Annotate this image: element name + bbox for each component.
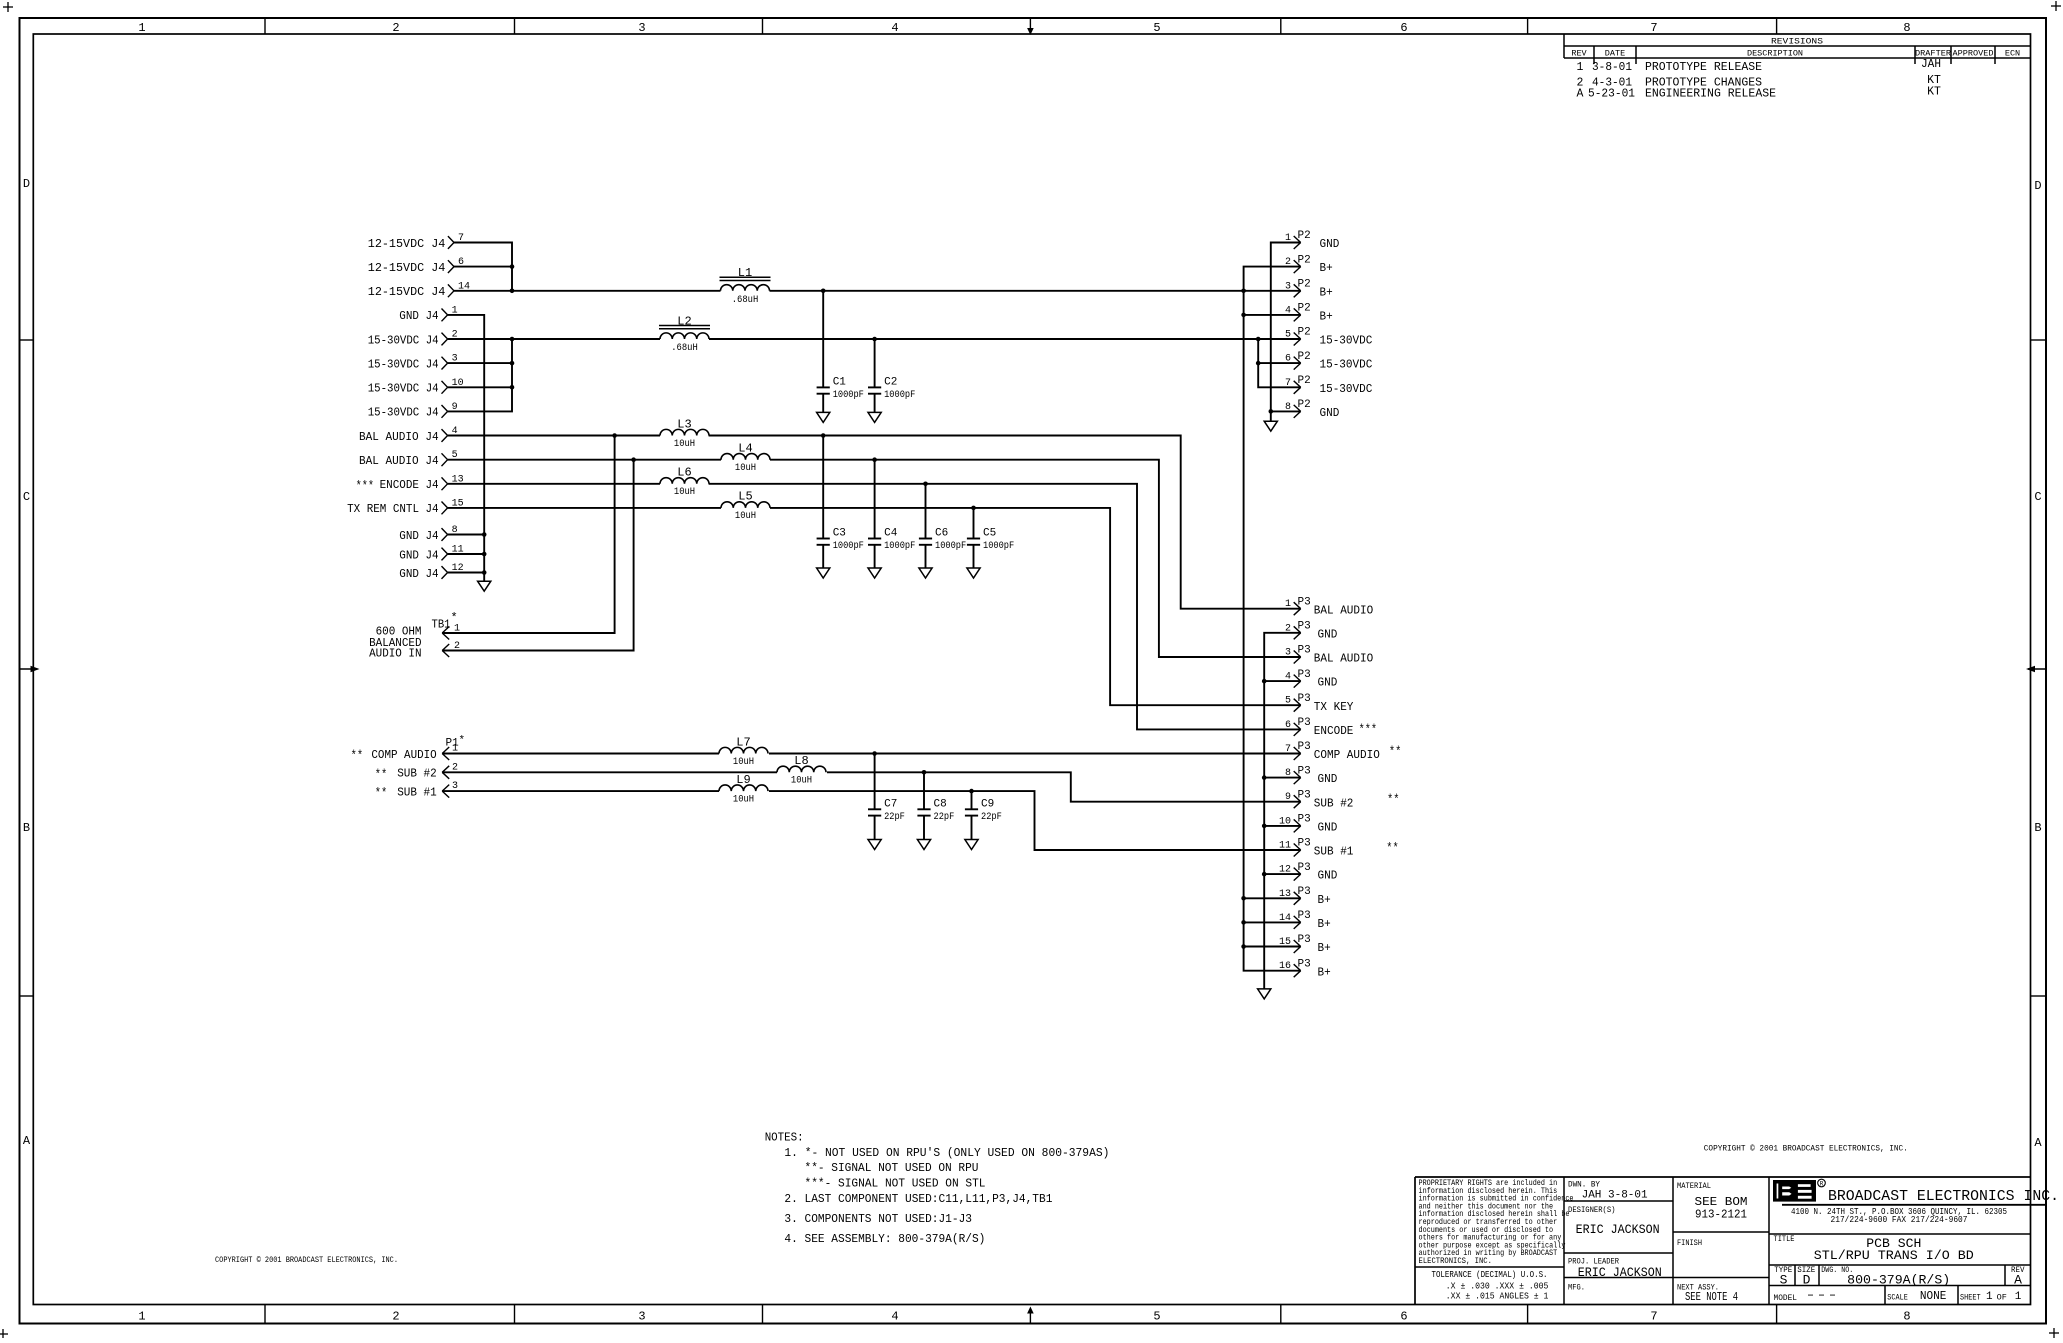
svg-text:8: 8 <box>1903 21 1910 35</box>
junction P3 GND bus pin 10 <box>1262 824 1267 829</box>
junction C5 <box>971 506 976 511</box>
svg-text:3: 3 <box>1285 281 1291 292</box>
connector J4 pin 6 (12-15VDC J4) <box>368 257 464 275</box>
svg-text:15-30VDC: 15-30VDC <box>1320 382 1373 396</box>
svg-text:P2: P2 <box>1298 327 1311 339</box>
svg-text:C4: C4 <box>884 528 898 540</box>
connector J4 pin 2 (15-30VDC J4) <box>368 330 458 348</box>
border zone row ticks <box>20 340 2047 996</box>
ground C9 <box>965 840 978 850</box>
svg-text:REV: REV <box>1571 49 1587 59</box>
connector P2 pin 2 (B+) <box>1285 254 1333 275</box>
svg-text:R: R <box>1820 1181 1824 1188</box>
connector P3 pin 14 (B+) <box>1279 910 1331 931</box>
svg-text:5-23-01: 5-23-01 <box>1588 88 1635 101</box>
connector P2 pin 8 (GND) <box>1285 399 1339 420</box>
svg-text:22pF: 22pF <box>981 811 1002 823</box>
svg-text:NONE: NONE <box>1920 1290 1947 1303</box>
notes <box>765 1130 1110 1246</box>
connector P3 pin 6 (ENCODE) <box>1285 717 1377 738</box>
centerline arrow top <box>1027 18 1034 35</box>
svg-text:P3: P3 <box>1298 596 1311 608</box>
svg-text:MFG.: MFG. <box>1568 1283 1585 1293</box>
junction C9 <box>969 789 974 794</box>
svg-text:D: D <box>1803 1273 1811 1288</box>
svg-text:1000pF: 1000pF <box>884 389 915 401</box>
svg-text:SEE NOTE 4: SEE NOTE 4 <box>1685 1291 1738 1304</box>
svg-text:5: 5 <box>1285 696 1291 707</box>
svg-text:L1: L1 <box>738 266 752 280</box>
svg-text:5: 5 <box>1285 330 1291 341</box>
material cell <box>1677 1181 1748 1222</box>
model scale sheet row <box>1774 1290 2022 1303</box>
svg-text:MATERIAL: MATERIAL <box>1677 1181 1711 1191</box>
wire 15-30VDC bus (P2 pins 5,6,7) <box>1258 339 1301 387</box>
svg-text:6: 6 <box>1400 21 1407 35</box>
connector P1 pin 2 (SUB #2) <box>375 762 458 782</box>
svg-text:6: 6 <box>1400 1310 1407 1324</box>
dwn by cell <box>1568 1180 1648 1202</box>
svg-text:1: 1 <box>1986 1291 1993 1303</box>
svg-text:1: 1 <box>1577 61 1584 74</box>
svg-text:B+: B+ <box>1320 310 1333 324</box>
svg-text:GND: GND <box>1318 627 1338 641</box>
svg-text:15-30VDC J4: 15-30VDC J4 <box>368 333 439 347</box>
svg-text:4. SEE ASSEMBLY: 800-379A(R/S): 4. SEE ASSEMBLY: 800-379A(R/S) <box>784 1232 985 1246</box>
inductor L8 10uH <box>777 754 826 787</box>
finish cell <box>1677 1238 1702 1248</box>
svg-text:C5: C5 <box>983 528 996 540</box>
ground C8 <box>917 840 930 850</box>
svg-text:GND J4: GND J4 <box>399 309 438 323</box>
svg-text:ERIC JACKSON: ERIC JACKSON <box>1576 1223 1660 1237</box>
inductor L9 10uH <box>719 773 768 806</box>
svg-text:C6: C6 <box>935 528 948 540</box>
junction B+ bus P3 pin 13 <box>1241 896 1246 901</box>
border zone letters left <box>23 177 31 1148</box>
svg-text:P3: P3 <box>1298 934 1311 946</box>
svg-text:10uH: 10uH <box>674 486 695 498</box>
revision row 1 <box>1577 58 1941 74</box>
connector P2 pin 4 (B+) <box>1285 303 1333 324</box>
junction TB1-1 / BAL AUDIO <box>612 433 617 438</box>
svg-text:APPROVED: APPROVED <box>1953 49 1994 59</box>
capacitor C3 1000pF <box>817 436 864 569</box>
junction P3 GND bus pin 4 <box>1262 679 1267 684</box>
svg-text:D: D <box>23 177 30 191</box>
connector P2 pin 6 (15-30VDC) <box>1285 351 1372 372</box>
svg-text:A: A <box>2034 1136 2042 1150</box>
junction C7 <box>872 751 877 756</box>
svg-text:10uH: 10uH <box>674 438 695 450</box>
svg-text:SCALE: SCALE <box>1887 1293 1908 1303</box>
svg-text:C: C <box>2034 490 2041 504</box>
wire J4 pin 14 to L1 <box>454 290 721 292</box>
junction B+ bus P3 pin 14 <box>1241 920 1246 925</box>
svg-text:ENCODE J4: ENCODE J4 <box>380 478 439 492</box>
wire L1 out to P2 pin 3 <box>770 290 1301 292</box>
svg-text:GND J4: GND J4 <box>399 548 438 562</box>
svg-text:DESIGNER(S): DESIGNER(S) <box>1568 1205 1616 1215</box>
connector P1 label <box>446 735 466 750</box>
svg-text:GND J4: GND J4 <box>399 529 438 543</box>
capacitor C2 1000pF <box>868 339 915 412</box>
svg-text:L2: L2 <box>677 314 691 328</box>
svg-text:BAL AUDIO: BAL AUDIO <box>1314 603 1373 617</box>
svg-text:A: A <box>23 1134 31 1148</box>
svg-text:SUB #2: SUB #2 <box>397 767 437 781</box>
wire J4 pin 4 to L3 <box>448 435 660 437</box>
terminal TB1 pin 1 <box>442 624 460 640</box>
connector P3 pin 5 (TX KEY) <box>1285 693 1353 714</box>
svg-text:913-2121: 913-2121 <box>1695 1209 1747 1222</box>
svg-text:ELECTRONICS, INC.: ELECTRONICS, INC. <box>1419 1257 1492 1266</box>
connector P3 pin 12 (GND) <box>1279 862 1337 883</box>
svg-text:12-15VDC J4: 12-15VDC J4 <box>368 261 446 275</box>
connector P3 pin 10 (GND) <box>1279 814 1337 835</box>
svg-text:TITLE: TITLE <box>1774 1234 1795 1244</box>
svg-text:---: --- <box>1805 1290 1838 1302</box>
svg-text:DESCRIPTION: DESCRIPTION <box>1747 49 1803 59</box>
svg-text:NOTES:: NOTES: <box>765 1130 804 1144</box>
svg-text:SHEET: SHEET <box>1960 1293 1981 1303</box>
connector J4 pin 9 (15-30VDC J4) <box>368 402 458 420</box>
connector P3 pin 3 (BAL AUDIO) <box>1285 645 1373 666</box>
connector P3 pin 16 (B+) <box>1279 958 1331 979</box>
designer cell <box>1568 1205 1660 1237</box>
svg-text:P3: P3 <box>1298 838 1311 850</box>
ground P2 <box>1264 421 1277 431</box>
junction B+ bus P3 pin 15 <box>1241 944 1246 949</box>
svg-text:1000pF: 1000pF <box>983 540 1014 552</box>
svg-text:A: A <box>2014 1273 2022 1288</box>
svg-text:C2: C2 <box>884 376 897 388</box>
svg-text:C9: C9 <box>981 798 994 810</box>
junction TB1-2 / BAL AUDIO <box>631 457 636 462</box>
capacitor C7 22pF <box>868 754 905 840</box>
svg-text:GND: GND <box>1318 772 1338 786</box>
wire P2 pin 4 stub <box>1244 314 1301 316</box>
wire P1 pin 3 to L9 <box>442 790 719 792</box>
terminal TB1 label <box>369 611 458 661</box>
svg-text:B+: B+ <box>1318 917 1331 931</box>
company name <box>1782 1188 2059 1225</box>
svg-text:**: ** <box>1386 841 1399 856</box>
connector J4 pin 12 (GND) <box>399 563 463 581</box>
svg-text:L5: L5 <box>738 490 752 504</box>
ground C1 <box>817 412 830 422</box>
svg-text:*: * <box>459 735 466 747</box>
connector J4 pin 14 (12-15VDC J4) <box>368 281 470 299</box>
svg-text:P2: P2 <box>1298 303 1311 315</box>
svg-text:SEE BOM: SEE BOM <box>1695 1196 1748 1209</box>
svg-text:7: 7 <box>1650 21 1657 35</box>
connector P3 pin 13 (B+) <box>1279 886 1331 907</box>
svg-text:L9: L9 <box>736 773 750 787</box>
svg-text:.68uH: .68uH <box>732 294 759 306</box>
svg-text:ENGINEERING RELEASE: ENGINEERING RELEASE <box>1645 88 1776 101</box>
capacitor C6 1000pF <box>919 484 966 568</box>
svg-text:P3: P3 <box>1298 669 1311 681</box>
revision row 2 <box>1577 74 1941 90</box>
svg-text:P3: P3 <box>1298 765 1311 777</box>
svg-text:10uH: 10uH <box>735 510 756 522</box>
svg-text:P2: P2 <box>1298 399 1311 411</box>
svg-text:4: 4 <box>891 1310 898 1324</box>
terminal TB1 pin 2 <box>442 641 460 657</box>
wire L7 out to P3 pin 7 (COMP AUDIO) <box>769 753 1301 755</box>
connector P3 pin 15 (B+) <box>1279 934 1331 955</box>
svg-text:3-8-01: 3-8-01 <box>1592 61 1632 74</box>
capacitor C8 22pF <box>917 772 954 839</box>
svg-text:P3: P3 <box>1298 741 1311 753</box>
svg-text:JAH 3-8-01: JAH 3-8-01 <box>1582 1190 1648 1202</box>
svg-text:800-379A(R/S): 800-379A(R/S) <box>1847 1273 1950 1288</box>
svg-text:4: 4 <box>891 21 898 35</box>
svg-text:10uH: 10uH <box>733 756 754 768</box>
junction P3 GND bus pin 8 <box>1262 775 1267 780</box>
connector J4 pin 13 (ENCODE J4) <box>356 474 464 493</box>
junction 12-15VDC bus pin 6 <box>510 264 515 269</box>
svg-text:AUDIO IN: AUDIO IN <box>369 647 421 661</box>
ground C5 <box>967 568 980 578</box>
svg-text:7: 7 <box>1285 744 1291 755</box>
connector J4 pin 8 (GND) <box>399 525 457 543</box>
connector J4 pin 10 (15-30VDC J4) <box>368 378 464 396</box>
svg-text:1000pF: 1000pF <box>833 540 864 552</box>
next assy cell <box>1677 1283 1738 1305</box>
svg-text:DRAFTER: DRAFTER <box>1915 49 1951 59</box>
svg-text:3. COMPONENTS NOT USED:J1-J3: 3. COMPONENTS NOT USED:J1-J3 <box>784 1212 972 1226</box>
wire GND J4 bus <box>448 315 485 581</box>
wire J4 pin 15 to L5 <box>448 507 721 509</box>
svg-text:16: 16 <box>1279 961 1291 972</box>
junction C1 <box>821 289 826 294</box>
svg-text:REVISIONS: REVISIONS <box>1771 37 1823 47</box>
mfg cell <box>1568 1283 1585 1293</box>
wire L4 out to P3 pin 3 (BAL AUDIO) <box>770 460 1301 657</box>
BE logo <box>1773 1179 1825 1201</box>
capacitor C1 1000pF <box>817 291 864 413</box>
wire P2 GND bus (pins 1,8) <box>1271 243 1301 422</box>
connector P3 pin 9 (SUB #2) <box>1285 789 1400 810</box>
copyright bottom left <box>215 1256 398 1265</box>
svg-text:ERIC JACKSON: ERIC JACKSON <box>1578 1266 1662 1280</box>
type size dwg rev row <box>1774 1265 2025 1288</box>
svg-text:10uH: 10uH <box>791 775 812 787</box>
svg-text:**- SIGNAL NOT USED ON RPU: **- SIGNAL NOT USED ON RPU <box>805 1161 979 1175</box>
svg-text:15-30VDC J4: 15-30VDC J4 <box>368 382 439 396</box>
svg-text:TOLERANCE (DECIMAL) U.O.S.: TOLERANCE (DECIMAL) U.O.S. <box>1432 1269 1548 1280</box>
svg-text:3: 3 <box>638 21 645 35</box>
connector P3 pin 7 (COMP AUDIO) <box>1285 741 1401 762</box>
connector P2 pin 3 (B+) <box>1285 279 1333 300</box>
wire P1 pin 1 to L7 <box>442 753 719 755</box>
wire L2 out to P2 pin 5 <box>709 338 1301 340</box>
svg-text:P3: P3 <box>1298 958 1311 970</box>
svg-text:9: 9 <box>1285 792 1291 803</box>
wire L6 out to P3 pin 6 (ENCODE) <box>709 484 1301 730</box>
inductor L7 10uH <box>719 735 768 768</box>
connector P3 pin 8 (GND) <box>1285 765 1337 786</box>
svg-text:B+: B+ <box>1318 941 1331 955</box>
inductor L1 .68uH <box>720 266 771 306</box>
svg-text:1: 1 <box>138 1310 145 1324</box>
junction C8 <box>922 770 927 775</box>
svg-text:GND: GND <box>1318 869 1338 883</box>
svg-text:C: C <box>23 490 30 504</box>
svg-text:D: D <box>2034 179 2041 193</box>
svg-text:P2: P2 <box>1298 375 1311 387</box>
svg-text:OF: OF <box>1997 1293 2007 1303</box>
revisions table <box>1564 34 2031 64</box>
svg-text:.XX ± .015 ANGLES ± 1: .XX ± .015 ANGLES ± 1 <box>1446 1291 1549 1302</box>
svg-text:B+: B+ <box>1318 965 1331 979</box>
wire 15-30VDC bus (J4 pins 2,3,10,9) <box>448 339 660 411</box>
svg-text:L4: L4 <box>738 442 752 456</box>
svg-text:COPYRIGHT © 2001 BROADCAST ELE: COPYRIGHT © 2001 BROADCAST ELECTRONICS, … <box>215 1256 398 1265</box>
svg-text:ENCODE: ENCODE <box>1314 724 1354 738</box>
svg-text:P3: P3 <box>1298 789 1311 801</box>
wire P1 pin 2 to L8 <box>442 771 777 773</box>
junction GND bus pin 8 <box>482 532 487 537</box>
inductor L6 10uH <box>660 466 709 499</box>
svg-text:2. LAST COMPONENT USED:C11,L11: 2. LAST COMPONENT USED:C11,L11,P3,J4,TB1 <box>784 1192 1052 1206</box>
connector P2 pin 5 (15-30VDC) <box>1285 327 1372 348</box>
wire TB1 pin 2 to BAL AUDIO (L4 in) <box>442 460 633 651</box>
connector P1 pin 3 (SUB #1) <box>375 781 458 801</box>
svg-text:.68uH: .68uH <box>671 342 698 354</box>
wire P3 GND bus (pins 2,4,8,10,12) <box>1264 633 1301 989</box>
inductor L4 10uH <box>721 442 770 475</box>
connector P3 pin 2 (GND) <box>1285 621 1337 642</box>
svg-text:3: 3 <box>1285 648 1291 659</box>
svg-text:P2: P2 <box>1298 279 1311 291</box>
proj leader cell <box>1568 1257 1662 1281</box>
wire L3 out to P3 pin 1 (BAL AUDIO) <box>709 436 1301 609</box>
svg-text:P3: P3 <box>1298 910 1311 922</box>
wire J4 pin 5 to L4 <box>448 459 721 461</box>
svg-text:BAL AUDIO J4: BAL AUDIO J4 <box>359 430 439 444</box>
inductor L3 10uH <box>660 417 709 450</box>
svg-text:**: ** <box>1387 792 1400 807</box>
svg-text:TB1: TB1 <box>432 618 451 632</box>
svg-text:1000pF: 1000pF <box>884 540 915 552</box>
svg-text:15-30VDC J4: 15-30VDC J4 <box>368 357 439 371</box>
svg-text:B: B <box>2034 821 2041 835</box>
junction 15-30VDC bus P2 pin 6 <box>1256 361 1261 366</box>
svg-text:P3: P3 <box>1298 693 1311 705</box>
svg-text:C1: C1 <box>833 376 847 388</box>
connector P2 pin 1 (GND) <box>1285 230 1339 251</box>
connector P3 pin 11 (SUB #1) <box>1279 838 1399 859</box>
svg-text:**: ** <box>375 786 388 801</box>
svg-text:10uH: 10uH <box>733 793 754 805</box>
svg-text:1000pF: 1000pF <box>833 389 864 401</box>
svg-text:GND J4: GND J4 <box>399 567 438 581</box>
svg-text:P2: P2 <box>1298 351 1311 363</box>
wire 12-15VDC bus (J4 pins 7,6,14) <box>454 243 512 291</box>
connector J4 pin 4 (BAL AUDIO J4) <box>359 426 458 444</box>
connector J4 pin 3 (15-30VDC J4) <box>368 354 458 372</box>
svg-text:TX KEY: TX KEY <box>1314 700 1354 714</box>
svg-text:2: 2 <box>392 1310 399 1324</box>
junction B+ bus P2 pin 3 <box>1241 289 1246 294</box>
svg-text:P3: P3 <box>1298 862 1311 874</box>
svg-text:P3: P3 <box>1298 814 1311 826</box>
junction C6 <box>923 482 928 487</box>
svg-text:MODEL: MODEL <box>1774 1293 1798 1303</box>
svg-text:S: S <box>1780 1273 1788 1288</box>
svg-text:1000pF: 1000pF <box>935 540 966 552</box>
svg-text:PROTOTYPE RELEASE: PROTOTYPE RELEASE <box>1645 61 1762 74</box>
svg-text:P3: P3 <box>1298 717 1311 729</box>
capacitor C9 22pF <box>965 791 1002 839</box>
svg-text:B: B <box>23 821 30 835</box>
wire L5 out to P3 pin 5 (TX KEY) <box>770 508 1301 705</box>
svg-text:L8: L8 <box>794 754 808 768</box>
connector J4 pin 7 (12-15VDC J4) <box>368 233 464 251</box>
svg-text:FINISH: FINISH <box>1677 1238 1702 1248</box>
svg-text:GND: GND <box>1320 406 1340 420</box>
border zone column ticks <box>265 18 1777 1324</box>
border zone numbers bottom <box>138 1310 1910 1324</box>
svg-text:10uH: 10uH <box>735 462 756 474</box>
connector P3 pin 1 (BAL AUDIO) <box>1285 596 1373 617</box>
svg-text:8: 8 <box>1903 1310 1910 1324</box>
inductor L2 .68uH <box>659 314 710 354</box>
junction C2 <box>872 337 877 342</box>
wire P3 B+ stubs (pins 13,14,15) <box>1244 898 1301 946</box>
svg-text:P3: P3 <box>1298 621 1311 633</box>
svg-text:L3: L3 <box>677 417 691 431</box>
junction C3 <box>821 433 826 438</box>
junction P3 GND bus pin 12 <box>1262 872 1267 877</box>
connector J4 pin 11 (GND) <box>399 545 463 563</box>
svg-text:***- SIGNAL NOT USED ON STL: ***- SIGNAL NOT USED ON STL <box>805 1177 986 1191</box>
svg-text:***: *** <box>356 478 375 493</box>
svg-text:BAL AUDIO: BAL AUDIO <box>1314 652 1373 666</box>
title block frame <box>1415 1177 2031 1305</box>
centerline arrow bottom <box>1027 1307 1034 1324</box>
svg-text:1: 1 <box>1285 599 1291 610</box>
connector J4 pin 1 (GND J4) <box>399 305 457 323</box>
svg-text:B+: B+ <box>1320 261 1333 275</box>
svg-text:22pF: 22pF <box>884 811 905 823</box>
svg-text:C3: C3 <box>833 528 846 540</box>
wire B+ bus (P2 pin 2 to P3 pin 16) <box>1244 267 1301 971</box>
svg-text:SUB #1: SUB #1 <box>1314 845 1354 859</box>
svg-text:P3: P3 <box>1298 886 1311 898</box>
connector J4 pin 15 (TX REM CNTL J4) <box>347 498 464 516</box>
border zone letters right <box>2034 179 2042 1150</box>
title cell <box>1774 1234 1974 1263</box>
connector P3 pin 4 (GND) <box>1285 669 1337 690</box>
svg-text:COPYRIGHT © 2001 BROADCAST ELE: COPYRIGHT © 2001 BROADCAST ELECTRONICS, … <box>1704 1145 1908 1154</box>
svg-text:1. *- NOT USED ON RPU'S (ONLY: 1. *- NOT USED ON RPU'S (ONLY USED ON 80… <box>784 1146 1109 1160</box>
svg-text:15-30VDC J4: 15-30VDC J4 <box>368 406 439 420</box>
junction C4 <box>872 457 877 462</box>
svg-text:217/224-9600 FAX 217/224-9607: 217/224-9600 FAX 217/224-9607 <box>1831 1215 1968 1225</box>
svg-text:COMP AUDIO: COMP AUDIO <box>1314 748 1380 762</box>
wire L9 out to P3 pin 11 (SUB #1) <box>769 791 1301 850</box>
svg-text:12-15VDC J4: 12-15VDC J4 <box>368 237 446 251</box>
tolerance block <box>1432 1269 1549 1302</box>
capacitor C5 1000pF <box>967 508 1014 568</box>
junction 15-30VDC bus P2 pin 5 <box>1256 337 1261 342</box>
junction 15-30VDC bus pin 2 <box>510 337 515 342</box>
svg-text:C8: C8 <box>934 798 947 810</box>
